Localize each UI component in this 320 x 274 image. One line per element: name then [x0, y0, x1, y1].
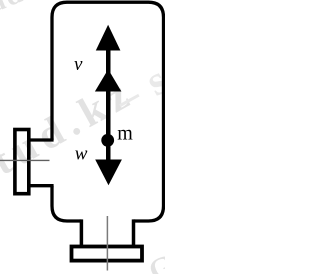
- left flange: [15, 130, 29, 194]
- arrowhead down (w arrow): [95, 160, 122, 186]
- bottom flange: [72, 247, 143, 261]
- vessel body outline (upper/right portion): [52, 2, 164, 221]
- svg-text:m: m: [117, 123, 133, 145]
- svg-text:v: v: [74, 54, 83, 75]
- arrow shaft: [106, 47, 111, 161]
- vessel body outline (lower-left portion): [52, 186, 81, 221]
- neck right wall: [132, 219, 136, 246]
- left pipe bottom line: [29, 184, 54, 187]
- left pipe top line: [29, 138, 54, 141]
- neck left wall: [80, 219, 84, 246]
- mass dot m: [101, 134, 114, 147]
- arrowhead up middle: [95, 69, 122, 91]
- horizontal centerline: [0, 159, 50, 161]
- svg-text:w: w: [75, 143, 88, 164]
- arrowhead up top (v arrow): [96, 25, 121, 51]
- vertical centerline: [106, 216, 108, 271]
